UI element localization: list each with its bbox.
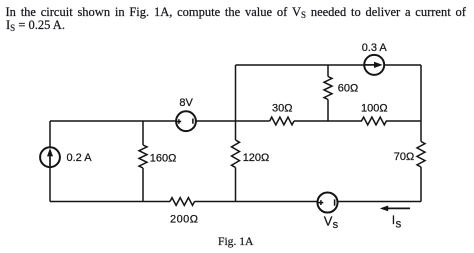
svg-text:160Ω: 160Ω bbox=[150, 152, 177, 164]
svg-text:V: V bbox=[324, 214, 333, 229]
svg-text:100Ω: 100Ω bbox=[361, 103, 388, 115]
svg-text:s: s bbox=[396, 218, 402, 230]
svg-text:60Ω: 60Ω bbox=[338, 83, 358, 95]
svg-text:70Ω: 70Ω bbox=[394, 151, 414, 163]
svg-text:0.3 A: 0.3 A bbox=[362, 42, 388, 54]
svg-text:30Ω: 30Ω bbox=[272, 103, 292, 115]
svg-text:s: s bbox=[333, 219, 339, 231]
svg-text:120Ω: 120Ω bbox=[243, 152, 270, 164]
svg-text:200Ω: 200Ω bbox=[170, 213, 198, 225]
svg-text:8V: 8V bbox=[179, 97, 193, 109]
svg-text:0.2 A: 0.2 A bbox=[67, 152, 93, 164]
